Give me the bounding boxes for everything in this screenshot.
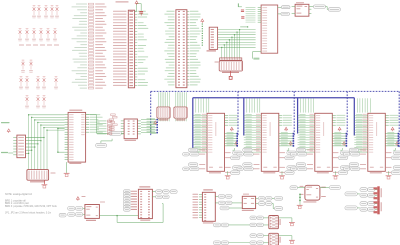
svg-text:JP1, JP2 are 2.54mm brkout hea: JP1, JP2 are 2.54mm brkout headers, 0.1i… xyxy=(5,211,52,214)
svg-text:NOTE: analog+digital brd: NOTE: analog+digital brd xyxy=(5,193,33,196)
svg-text:BRD 3: populate 74HC164, MAX72: BRD 3: populate 74HC164, MAX7219, OPT br… xyxy=(5,205,57,208)
